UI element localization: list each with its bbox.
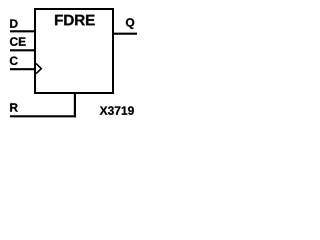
pin label C [10,57,18,65]
flip-flop U1 body (FDRE) [35,9,113,93]
label FDRE [55,15,95,26]
pin label CE [10,37,26,46]
wire C clock input [10,68,36,70]
clock chevron on pin C [36,64,41,74]
wire R input vertical segment [74,93,76,118]
wire R input horizontal segment [10,115,76,117]
wire CE input [10,49,36,51]
figure number label X3719 [100,106,134,115]
wire Q output [112,33,137,35]
pin label D [10,19,17,27]
pin label Q [126,18,134,29]
wire D input [10,30,36,32]
pin label R [10,103,18,111]
